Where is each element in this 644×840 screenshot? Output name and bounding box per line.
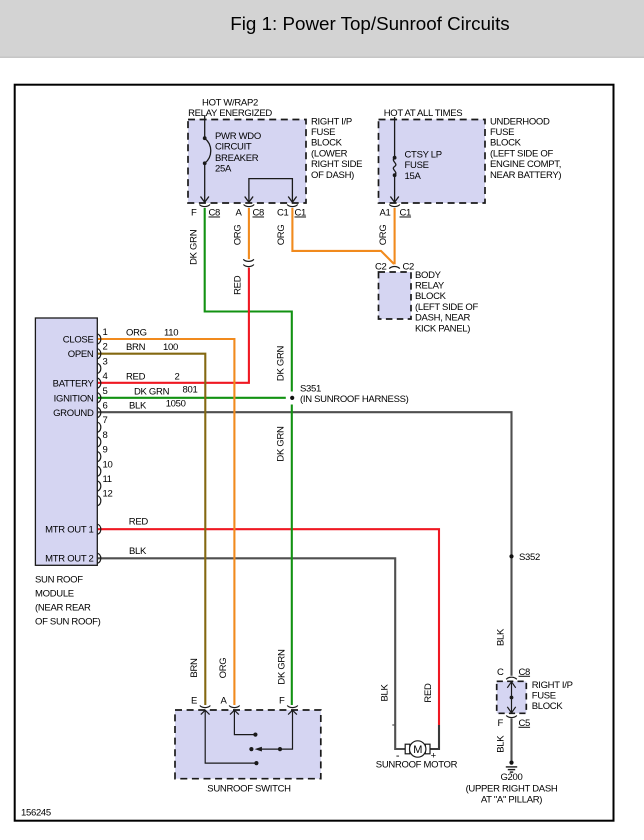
svg-text:3: 3 bbox=[103, 356, 108, 367]
svg-text:OF DASH): OF DASH) bbox=[311, 170, 354, 181]
svg-text:A1: A1 bbox=[379, 208, 390, 219]
svg-text:9: 9 bbox=[103, 445, 108, 456]
svg-text:GROUND: GROUND bbox=[53, 408, 94, 419]
wire DK GRN: breaker pin F down, right, down through S351 to switch pin F bbox=[188, 208, 291, 705]
wire BLK: module pin 6 right then down through S352 to connector C8 bbox=[98, 399, 512, 676]
wire ORG: fuse block pin C1 down, right, to body relay block connector C2 bbox=[276, 208, 394, 264]
connector C / C8 above block bbox=[497, 667, 530, 680]
svg-text:BODY: BODY bbox=[415, 270, 442, 281]
svg-text:C2: C2 bbox=[403, 262, 415, 273]
svg-text:MTR OUT 2: MTR OUT 2 bbox=[45, 554, 93, 565]
svg-text:OPEN: OPEN bbox=[68, 349, 94, 360]
svg-text:DASH, NEAR: DASH, NEAR bbox=[415, 313, 471, 324]
svg-text:5: 5 bbox=[103, 386, 108, 397]
svg-text:RIGHT I/P: RIGHT I/P bbox=[532, 680, 573, 691]
wire RED: module MTR OUT 1 right then down to sunroof motor (+) bbox=[98, 517, 439, 725]
svg-text:BRN: BRN bbox=[126, 342, 146, 353]
svg-text:SUNROOF MOTOR: SUNROOF MOTOR bbox=[376, 759, 458, 770]
sunroof switch box (dashed) bbox=[175, 710, 321, 779]
svg-text:BLK: BLK bbox=[495, 628, 506, 646]
sunroof motor M1 bbox=[376, 741, 458, 771]
svg-text:DK GRN: DK GRN bbox=[134, 386, 170, 397]
svg-text:11: 11 bbox=[103, 474, 112, 485]
svg-text:BLK: BLK bbox=[379, 684, 390, 702]
svg-text:SUN ROOF: SUN ROOF bbox=[35, 575, 83, 586]
svg-text:C8: C8 bbox=[519, 667, 531, 678]
svg-text:F: F bbox=[191, 208, 197, 219]
svg-text:RIGHT SIDE: RIGHT SIDE bbox=[311, 159, 362, 170]
svg-text:BLOCK: BLOCK bbox=[490, 138, 522, 149]
switch internal contact from pin A bbox=[230, 710, 258, 737]
svg-text:G200: G200 bbox=[500, 772, 522, 783]
svg-text:PWR WDO: PWR WDO bbox=[215, 131, 261, 142]
svg-text:BLK: BLK bbox=[496, 735, 507, 753]
svg-text:(NEAR REAR: (NEAR REAR bbox=[35, 603, 91, 614]
module pin 11 bbox=[97, 474, 111, 491]
block name: BODY RELAY BLOCK (LEFT SIDE OF DASH, NEAR KICK PANEL) bbox=[415, 270, 478, 335]
jumper between pins A and C1 inside fuse block bbox=[245, 179, 297, 203]
svg-text:HOT W/RAP2: HOT W/RAP2 bbox=[202, 98, 258, 109]
svg-text:BLK: BLK bbox=[129, 546, 147, 557]
svg-text:RED: RED bbox=[232, 275, 243, 295]
module pin 4 bbox=[97, 371, 107, 388]
title banner bbox=[0, 0, 644, 58]
svg-text:MTR OUT 1: MTR OUT 1 bbox=[45, 525, 93, 536]
fuse block: RIGHT I/P FUSE BLOCK (bottom right, dashed) bbox=[497, 681, 527, 713]
switch internal contact from pin E bbox=[201, 710, 259, 765]
module pin 8 bbox=[97, 430, 107, 447]
module pin 3 bbox=[97, 356, 107, 373]
svg-text:C5: C5 bbox=[519, 718, 531, 729]
svg-text:DK GRN: DK GRN bbox=[277, 649, 288, 685]
fuse: CTSY LP FUSE 15A bbox=[390, 117, 441, 202]
fuse block: UNDERHOOD FUSE BLOCK (top right, dashed) bbox=[379, 120, 486, 204]
svg-text:CIRCUIT: CIRCUIT bbox=[215, 142, 252, 153]
svg-text:NEAR BATTERY): NEAR BATTERY) bbox=[490, 170, 561, 181]
block name: RIGHT I/P FUSE BLOCK (LOWER RIGHT SIDE OF DASH) bbox=[311, 116, 362, 181]
svg-text:ENGINE COMPT,: ENGINE COMPT, bbox=[490, 159, 561, 170]
svg-text:SUNROOF SWITCH: SUNROOF SWITCH bbox=[207, 784, 291, 795]
svg-text:12: 12 bbox=[103, 489, 113, 500]
svg-text:(LEFT SIDE OF: (LEFT SIDE OF bbox=[415, 302, 478, 313]
svg-text:110: 110 bbox=[164, 328, 178, 339]
svg-text:F: F bbox=[279, 696, 285, 707]
module pin 1 bbox=[97, 327, 107, 344]
wire BLK: module MTR OUT 2 right then down to sunroof motor (-) bbox=[98, 546, 405, 749]
svg-text:A: A bbox=[220, 696, 227, 707]
svg-text:CLOSE: CLOSE bbox=[63, 335, 94, 346]
svg-text:C2: C2 bbox=[375, 262, 387, 273]
svg-text:BATTERY: BATTERY bbox=[53, 379, 95, 390]
svg-text:BLK: BLK bbox=[129, 401, 147, 412]
pin C1 / connector C1 bbox=[277, 205, 306, 219]
connector F / C5 below block bbox=[497, 716, 530, 729]
svg-text:(UPPER RIGHT DASH: (UPPER RIGHT DASH bbox=[466, 783, 558, 794]
svg-text:BLOCK: BLOCK bbox=[415, 291, 447, 302]
svg-text:IGNITION: IGNITION bbox=[54, 393, 94, 404]
body relay block (dashed) bbox=[379, 272, 412, 319]
wire RED: in-line connector down then left to module pin 4 bbox=[98, 268, 249, 383]
block name: RIGHT I/P FUSE BLOCK bbox=[532, 680, 573, 712]
wire BLK: red wire lower section to motor + terminal bbox=[430, 725, 439, 749]
svg-text:HOT AT ALL TIMES: HOT AT ALL TIMES bbox=[384, 108, 463, 119]
svg-text:RELAY: RELAY bbox=[415, 281, 445, 292]
sunroof module box bbox=[35, 318, 97, 565]
svg-text:F: F bbox=[497, 718, 503, 729]
svg-text:ORG: ORG bbox=[218, 658, 229, 679]
wire DK GRN: module pin 5 right to splice S351 bbox=[98, 384, 286, 398]
value labels for RED wire at module pin 4 bbox=[126, 371, 180, 382]
module pin 12 bbox=[97, 489, 112, 506]
module pin 5 bbox=[97, 386, 107, 403]
svg-text:KICK PANEL): KICK PANEL) bbox=[415, 323, 470, 334]
switch pin E bbox=[191, 696, 210, 708]
svg-text:ORG: ORG bbox=[232, 225, 243, 246]
pin F / connector C8 bbox=[191, 205, 220, 219]
svg-text:MODULE: MODULE bbox=[35, 589, 74, 600]
svg-text:UNDERHOOD: UNDERHOOD bbox=[490, 116, 550, 127]
svg-text:S352: S352 bbox=[519, 552, 540, 563]
svg-text:100: 100 bbox=[163, 342, 178, 353]
svg-text:801: 801 bbox=[183, 384, 198, 395]
svg-text:(LOWER: (LOWER bbox=[311, 148, 348, 159]
svg-text:C8: C8 bbox=[209, 208, 221, 219]
module pin MTR OUT 2 bbox=[97, 553, 101, 563]
pin A / connector C8 bbox=[235, 205, 264, 219]
svg-text:RIGHT I/P: RIGHT I/P bbox=[311, 116, 352, 127]
svg-text:25A: 25A bbox=[215, 164, 232, 175]
svg-text:RELAY ENERGIZED: RELAY ENERGIZED bbox=[188, 108, 272, 119]
svg-text:2: 2 bbox=[103, 342, 108, 353]
svg-text:AT "A" PILLAR): AT "A" PILLAR) bbox=[481, 794, 542, 805]
module internal labels bbox=[45, 335, 94, 565]
module pin 6 bbox=[97, 401, 107, 418]
svg-text:C: C bbox=[497, 667, 504, 678]
internal path through fuse block with junction bbox=[507, 682, 515, 713]
module pin 7 bbox=[97, 415, 107, 432]
svg-text:C8: C8 bbox=[253, 208, 265, 219]
svg-text:CTSY LP: CTSY LP bbox=[405, 150, 442, 161]
svg-text:4: 4 bbox=[103, 371, 108, 382]
svg-text:2: 2 bbox=[175, 371, 180, 382]
module block name: SUN ROOF MODULE (NEAR REAR OF SUN ROOF) bbox=[35, 575, 101, 628]
svg-text:1050: 1050 bbox=[166, 399, 186, 410]
svg-text:FUSE: FUSE bbox=[490, 127, 514, 138]
pin A1 / connector C1 bbox=[379, 205, 411, 219]
svg-text:RED: RED bbox=[129, 517, 149, 528]
svg-text:RED: RED bbox=[423, 683, 434, 703]
svg-text:OF SUN ROOF): OF SUN ROOF) bbox=[35, 617, 101, 628]
splice S351 (IN SUNROOF HARNESS) bbox=[290, 384, 409, 406]
ground G200 (UPPER RIGHT DASH AT "A" PILLAR) bbox=[466, 761, 558, 806]
svg-text:FUSE: FUSE bbox=[405, 160, 429, 171]
switch pin A bbox=[220, 696, 239, 708]
svg-text:156245: 156245 bbox=[21, 808, 51, 819]
module pin 10 bbox=[97, 459, 112, 476]
splice S352 bbox=[509, 552, 540, 563]
block name: UNDERHOOD FUSE BLOCK (LEFT SIDE OF ENGINE COMPT, NEAR BATTERY) bbox=[490, 116, 561, 181]
label: HOT W/RAP2 RELAY ENERGIZED bbox=[188, 98, 272, 120]
svg-text:C1: C1 bbox=[277, 208, 289, 219]
svg-text:S351: S351 bbox=[300, 384, 321, 395]
svg-text:FUSE: FUSE bbox=[532, 691, 556, 702]
svg-text:BLOCK: BLOCK bbox=[532, 701, 564, 712]
wire ORG: fuse block pin A down to in-line connector bbox=[232, 208, 249, 259]
svg-text:BREAKER: BREAKER bbox=[215, 153, 259, 164]
svg-text:(IN SUNROOF HARNESS): (IN SUNROOF HARNESS) bbox=[300, 394, 409, 405]
svg-text:A: A bbox=[235, 208, 242, 219]
module pin MTR OUT 1 bbox=[97, 524, 101, 534]
wire ORG: module pin 1 right then down to switch pin A bbox=[98, 328, 234, 706]
svg-text:BLOCK: BLOCK bbox=[311, 138, 343, 149]
svg-text:DK GRN: DK GRN bbox=[275, 345, 286, 381]
wire BLK: connector C5 down to ground G200 bbox=[496, 719, 512, 762]
module pin 9 bbox=[97, 445, 107, 462]
switch pin F bbox=[279, 696, 298, 708]
wire ORG: underhood fuse pin A1 down to body relay block connector C2 bbox=[378, 208, 394, 264]
svg-text:RED: RED bbox=[126, 371, 146, 382]
svg-text:8: 8 bbox=[103, 430, 108, 441]
svg-text:10: 10 bbox=[103, 459, 113, 470]
svg-text:1: 1 bbox=[103, 327, 108, 338]
switch internal wiper from pin F bbox=[249, 710, 297, 751]
svg-text:C1: C1 bbox=[295, 208, 307, 219]
svg-text:6: 6 bbox=[103, 401, 108, 412]
svg-text:E: E bbox=[191, 696, 197, 707]
circuit breaker: PWR WDO CIRCUIT BREAKER 25A bbox=[201, 116, 261, 202]
svg-text:ORG: ORG bbox=[276, 225, 287, 246]
svg-text:FUSE: FUSE bbox=[311, 127, 335, 138]
svg-text:BRN: BRN bbox=[189, 658, 200, 678]
module pin 2 bbox=[97, 342, 107, 359]
svg-text:ORG: ORG bbox=[126, 328, 147, 339]
svg-text:15A: 15A bbox=[405, 171, 422, 182]
svg-text:ORG: ORG bbox=[378, 225, 389, 246]
in-line connector (ORG to RED) bbox=[243, 259, 254, 266]
svg-text:7: 7 bbox=[103, 415, 108, 426]
svg-text:M: M bbox=[413, 744, 422, 756]
svg-text:(LEFT SIDE OF: (LEFT SIDE OF bbox=[490, 148, 553, 159]
svg-text:C1: C1 bbox=[400, 208, 412, 219]
svg-text:DK GRN: DK GRN bbox=[188, 229, 199, 265]
connector C2 at body relay block bbox=[375, 262, 414, 273]
svg-text:Fig 1: Power Top/Sunroof Circu: Fig 1: Power Top/Sunroof Circuits bbox=[230, 13, 509, 34]
wire BRN: module pin 2 right then down to switch pin E bbox=[98, 342, 205, 705]
fuse block: RIGHT I/P FUSE BLOCK (top left, dashed) bbox=[188, 120, 306, 204]
svg-text:DK GRN: DK GRN bbox=[275, 426, 286, 462]
